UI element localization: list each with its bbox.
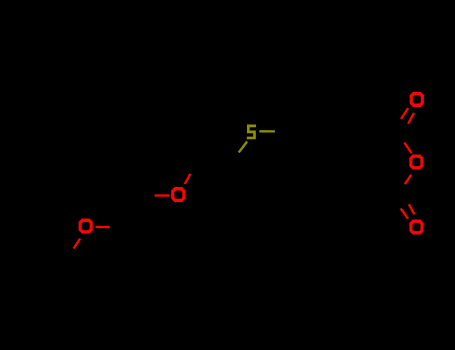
wire S right bond half <box>259 130 275 132</box>
wire C=O5 double bond dash right <box>409 204 415 214</box>
wire C=O5 double bond dash left <box>401 208 408 218</box>
node O5 carbonyl oxygen bottom <box>409 219 423 234</box>
wire O4 down-left bond half <box>405 175 412 185</box>
node S thioether sulfur <box>247 125 256 140</box>
wire C=O3 double bond dash right <box>408 113 414 124</box>
wire O1 down-left bond half <box>74 239 81 249</box>
node O4 anhydride ester oxygen <box>409 154 423 169</box>
wire O1 right bond half <box>96 226 110 229</box>
wire S down-left bond half <box>239 142 247 153</box>
wire C-O4 upper bond half <box>404 143 411 154</box>
node O2 ether oxygen center <box>171 187 185 202</box>
wire C=O3 double bond dash left <box>401 108 408 119</box>
node O1 ether oxygen left <box>79 219 93 234</box>
wire O2 up-right bond half <box>185 174 191 184</box>
wire O2 left bond half <box>155 194 170 196</box>
node O3 carbonyl oxygen top <box>410 92 424 107</box>
